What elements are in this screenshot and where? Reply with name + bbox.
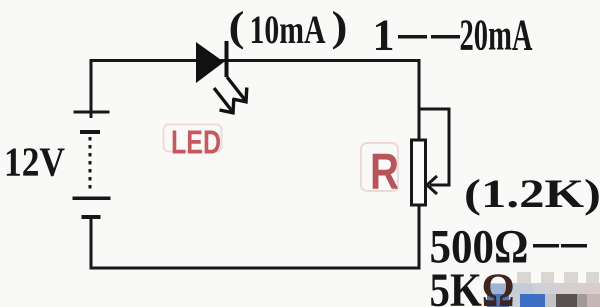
wire: right vertical upper (top corner down to resistor) — [418, 59, 421, 140]
svg-text:R: R — [370, 143, 399, 200]
wiper arrowhead pointing left at resistor — [427, 176, 437, 194]
red annotation R: faint callout box — [361, 143, 398, 191]
battery B1: short plate — [80, 130, 100, 134]
wire: left vertical lower (battery - down to bottom corner) — [90, 217, 93, 270]
dash 3 — [533, 244, 559, 248]
svg-text:(: ( — [229, 5, 245, 51]
svg-text:12V: 12V — [4, 139, 65, 185]
wiper branch wire: horizontal from right wire — [418, 108, 451, 111]
wire: bottom horizontal — [90, 267, 421, 270]
red annotation LED: faint callout box — [164, 125, 222, 152]
watermark: mosaic pixel blocks — [487, 283, 600, 307]
svg-text:(1.2K): (1.2K) — [464, 171, 600, 216]
battery B1: dotted cell continuation line — [89, 137, 92, 192]
wire: top horizontal (battery + to LED anode and on to R) — [90, 59, 421, 62]
wire: left vertical upper (top corner down to battery top plate) — [90, 59, 93, 118]
watermark: faint gray characters — [517, 272, 599, 283]
LED D1: cathode bar — [225, 41, 229, 77]
battery B1: short plate (bottom, -) — [82, 215, 101, 219]
svg-text:LED: LED — [171, 124, 221, 161]
LED D1: light emission arrow 2 — [214, 88, 234, 113]
wiper branch wire: vertical — [448, 108, 451, 187]
svg-text:5KΩ: 5KΩ — [430, 264, 515, 307]
battery B1: long plate (lower) — [73, 197, 111, 201]
wire: right vertical lower (resistor to bottom corner) — [418, 205, 421, 270]
svg-text:10mA: 10mA — [250, 7, 326, 52]
dash 2 — [431, 35, 460, 39]
svg-text:20mA: 20mA — [460, 11, 533, 60]
LED D1: light emission arrow 1 — [227, 77, 247, 102]
dash 4 — [561, 244, 587, 248]
svg-text:): ) — [332, 5, 348, 51]
battery B1 12V: long plate (top, +) — [74, 111, 110, 114]
wiper branch wire: horizontal to arrow — [430, 184, 450, 187]
dash 1 — [398, 35, 427, 39]
LED D1: anode triangle — [196, 42, 224, 83]
resistor R body (potentiometer) — [412, 140, 426, 205]
svg-text:1: 1 — [373, 11, 395, 60]
